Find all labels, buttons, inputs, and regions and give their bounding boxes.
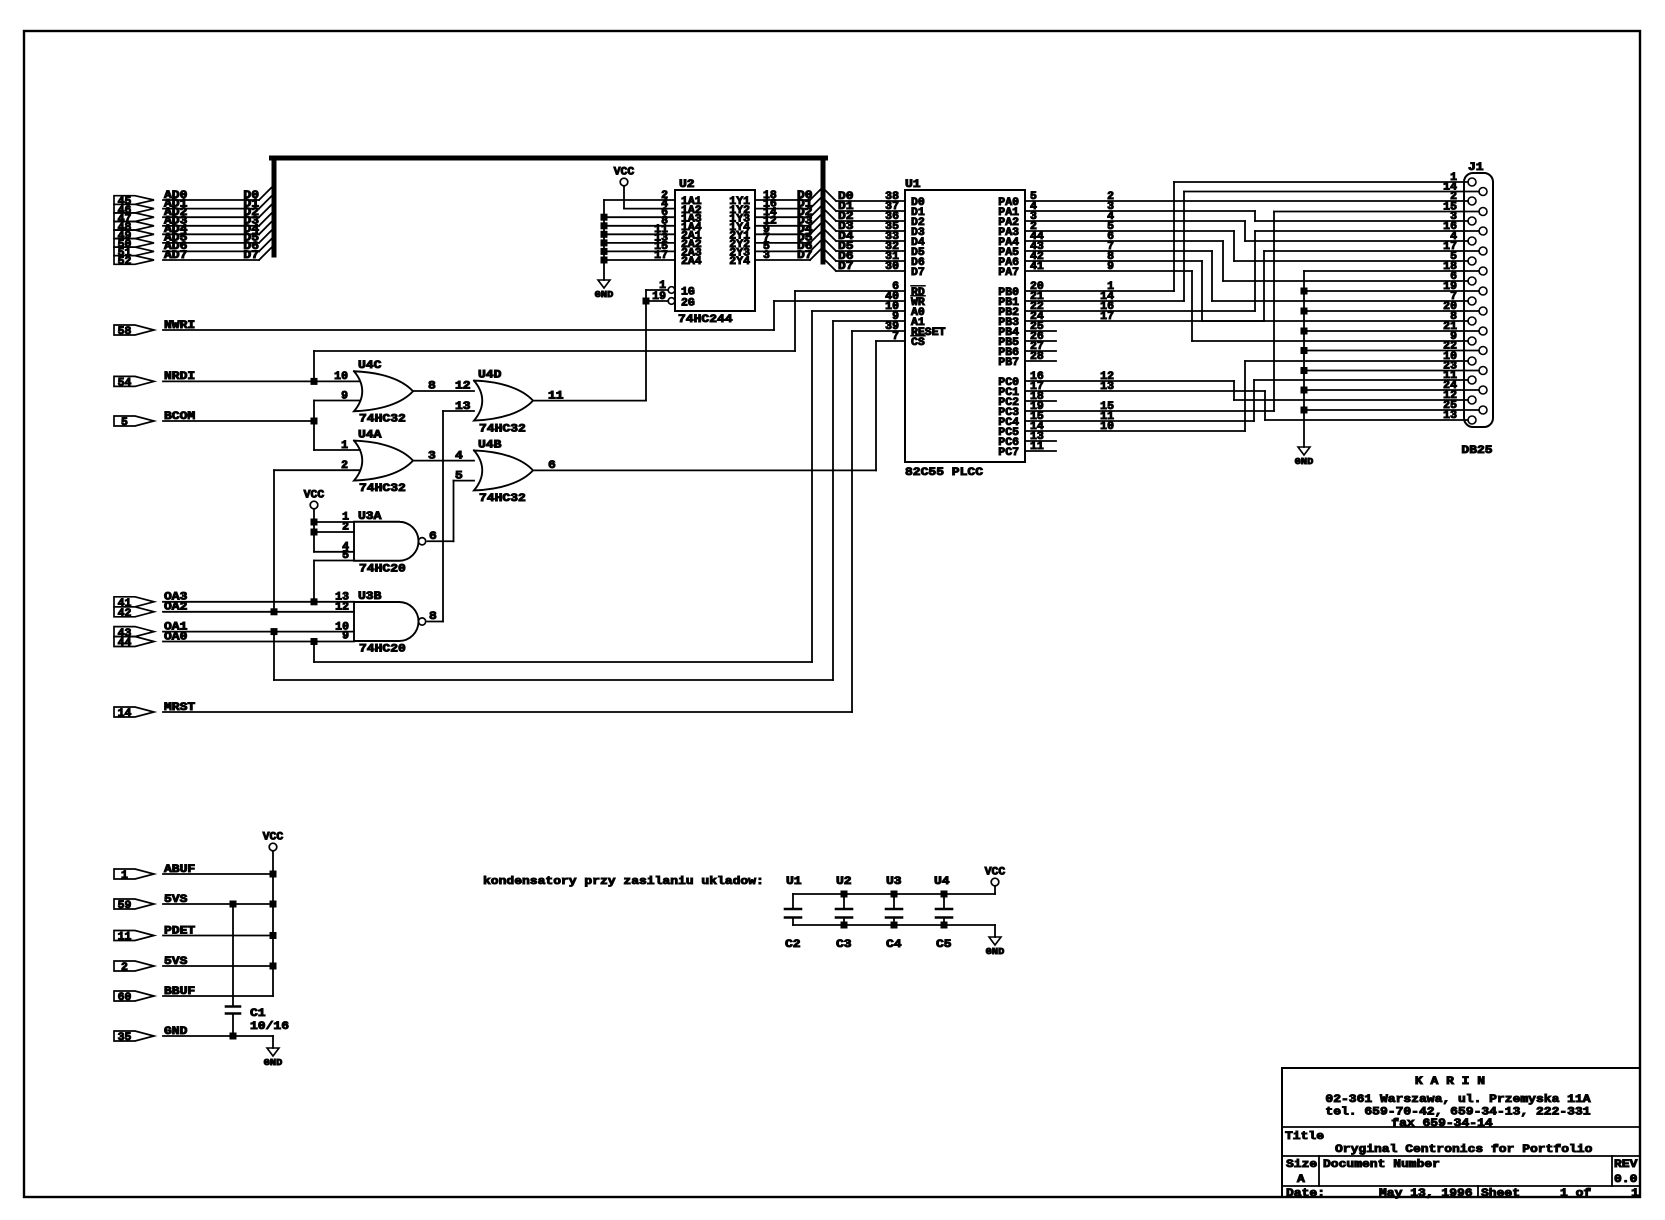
wire U2 output 2Y4 (pin 3) to bus bbox=[755, 259, 810, 261]
svg-text:U3B: U3B bbox=[358, 591, 382, 603]
wire bus to U1 D1 (pin 37) bbox=[823, 198, 836, 211]
svg-text:U4D: U4D bbox=[478, 370, 502, 382]
svg-text:VCC: VCC bbox=[263, 832, 284, 844]
ground symbol caps rail bbox=[989, 937, 1001, 945]
svg-text:74HC244: 74HC244 bbox=[678, 314, 733, 326]
junction GND trunk pin 19 bbox=[1301, 288, 1308, 295]
junction OA0 bbox=[311, 638, 318, 645]
connector J1 pin 21 hole bbox=[1479, 327, 1487, 335]
svg-text:U4B: U4B bbox=[478, 440, 502, 452]
capacitor C4 bbox=[893, 894, 895, 909]
port 45 (AD0) bbox=[114, 196, 154, 205]
connector J1 pin 25 hole bbox=[1479, 406, 1487, 414]
wire bus to U1 D4 (pin 33) bbox=[823, 228, 836, 241]
svg-text:60: 60 bbox=[118, 992, 132, 1004]
svg-text:PDET: PDET bbox=[164, 925, 195, 937]
junction BCOM bbox=[311, 418, 318, 425]
svg-text:5: 5 bbox=[121, 417, 128, 429]
svg-text:4: 4 bbox=[455, 450, 463, 462]
svg-text:J1: J1 bbox=[1468, 162, 1484, 174]
svg-text:8: 8 bbox=[428, 381, 436, 393]
svg-text:59: 59 bbox=[118, 900, 132, 912]
wire AD6 bbox=[163, 250, 259, 252]
svg-text:U3A: U3A bbox=[358, 511, 382, 523]
wire AD3 bbox=[163, 225, 259, 227]
junction U3A pin1 bbox=[311, 519, 318, 526]
svg-text:C1: C1 bbox=[250, 1008, 266, 1020]
connector J1 pin 11 hole bbox=[1468, 376, 1476, 384]
svg-text:Size: Size bbox=[1286, 1159, 1317, 1171]
svg-text:19: 19 bbox=[652, 291, 666, 303]
wire U2 output 1Y1 (pin 18) to bus bbox=[755, 199, 810, 201]
title block bbox=[1282, 1068, 1640, 1197]
wire bus to U1 D3 (pin 35) bbox=[823, 218, 836, 231]
wire stub U1 PC2 bbox=[1025, 400, 1056, 402]
wire GND tie vertical at U2 inputs bbox=[603, 200, 605, 280]
junction GND/C1 bbox=[230, 1033, 237, 1040]
svg-text:1: 1 bbox=[1631, 1188, 1639, 1200]
wire U4C output pin 8 to U4D pin 12 bbox=[413, 390, 474, 392]
wire AD5 bbox=[163, 242, 259, 244]
wire J1 pin 18 to GND trunk bbox=[1304, 270, 1479, 272]
wire stub U1 PC7 bbox=[1025, 450, 1056, 452]
ground symbol bottom-left bbox=[267, 1048, 279, 1056]
svg-text:U3: U3 bbox=[886, 876, 902, 888]
wire J1 pin 22 to GND trunk bbox=[1304, 350, 1479, 352]
port 11 (PDET) bbox=[114, 931, 154, 941]
wire U2 output 2Y3 (pin 5) to bus bbox=[755, 250, 810, 252]
svg-text:tel. 659-70-42, 659-34-13, 222: tel. 659-70-42, 659-34-13, 222-331 bbox=[1325, 1107, 1590, 1119]
port 60 (BBUF) bbox=[114, 991, 154, 1001]
svg-text:02-361 Warszawa, ul. Przemyska: 02-361 Warszawa, ul. Przemyska 11A bbox=[1325, 1094, 1590, 1106]
svg-text:3: 3 bbox=[428, 450, 436, 462]
junction 1G/2G bbox=[643, 298, 650, 305]
svg-text:GND: GND bbox=[595, 289, 614, 300]
connector J1 pin 14 hole bbox=[1479, 188, 1487, 196]
ground symbol J1 bbox=[1298, 447, 1310, 455]
svg-text:5VS: 5VS bbox=[164, 956, 188, 968]
or-gate U4D 74HC32 bbox=[474, 381, 533, 421]
wire U2 input pin 6 bbox=[604, 216, 675, 218]
svg-text:A: A bbox=[1297, 1174, 1305, 1186]
bus AD/D data bus horizontal top bbox=[272, 156, 826, 161]
connector J1 DB25 body bbox=[1464, 173, 1493, 427]
junction GND trunk pin 25 bbox=[1301, 407, 1308, 414]
wire U1 PB0 to J1 pin 1 bbox=[1025, 290, 1174, 292]
wire U2 output 1Y3 (pin 14) to bus bbox=[755, 216, 810, 218]
wire U3A pin 5 to OA3 bbox=[314, 560, 354, 562]
svg-text:OA0: OA0 bbox=[164, 631, 188, 643]
wire NRDI to U4C pin 10 and U1 RD bbox=[163, 380, 360, 382]
wire U1 PB1 to J1 pin 14 bbox=[1025, 300, 1184, 302]
nand-gate U3A 74HC20 bbox=[354, 522, 419, 561]
wire U2 pin 1 (1G) bbox=[646, 289, 668, 291]
port 2 (5VS) bbox=[114, 961, 154, 971]
connector J1 pin 8 hole bbox=[1468, 317, 1476, 325]
junction at U2 pin 6 bbox=[601, 214, 608, 221]
connector J1 pin 19 hole bbox=[1479, 287, 1487, 295]
svg-text:2: 2 bbox=[121, 962, 128, 974]
svg-text:35: 35 bbox=[118, 1032, 132, 1044]
junction at U2 pin 13 bbox=[601, 239, 608, 246]
junction C3 bottom bbox=[841, 922, 848, 929]
junction 5VS / C1 bbox=[230, 901, 237, 908]
wire U1 PC0 to J1 pin 12 bbox=[1025, 380, 1234, 382]
wire U2 output 2Y2 (pin 7) to bus bbox=[755, 242, 810, 244]
svg-text:D7: D7 bbox=[243, 250, 259, 262]
wire AD1 bbox=[163, 208, 259, 210]
wire J1 pin 25 to GND trunk bbox=[1304, 409, 1479, 411]
port 48 (AD3) bbox=[114, 222, 154, 231]
connector J1 pin 9 hole bbox=[1468, 337, 1476, 345]
svg-text:OA2: OA2 bbox=[164, 602, 188, 614]
wire AD2 bbox=[163, 216, 259, 218]
svg-text:0.0: 0.0 bbox=[1614, 1174, 1638, 1186]
or-gate U4B 74HC32 bbox=[474, 450, 533, 490]
svg-text:9: 9 bbox=[341, 391, 348, 403]
wire GND trunk at J1 bbox=[1303, 271, 1305, 447]
wire caps VCC rail bbox=[994, 886, 996, 894]
wire stub U1 PB7 bbox=[1025, 360, 1056, 362]
wire U1 PA0 to J1 pin 2 bbox=[1025, 200, 1468, 202]
port 1 (ABUF) bbox=[114, 869, 154, 879]
wire U1 PA6 to J1 pin 8 bbox=[1025, 260, 1202, 262]
junction GND trunk pin 20 bbox=[1301, 308, 1308, 315]
svg-text:GND: GND bbox=[1295, 456, 1314, 467]
connector J1 pin 7 hole bbox=[1468, 297, 1476, 305]
svg-text:2A4: 2A4 bbox=[681, 256, 702, 268]
wire U3A output pin 6 to U4B pin 5 bbox=[428, 540, 454, 542]
svg-text:74HC32: 74HC32 bbox=[359, 414, 406, 426]
svg-text:VCC: VCC bbox=[985, 867, 1006, 879]
svg-text:U4A: U4A bbox=[358, 430, 382, 442]
capacitor C5 bbox=[943, 894, 945, 909]
svg-text:11: 11 bbox=[548, 390, 564, 402]
svg-text:Sheet: Sheet bbox=[1481, 1188, 1520, 1200]
svg-text:Oryginal Centronics for Portfo: Oryginal Centronics for Portfolio bbox=[1335, 1144, 1593, 1156]
svg-text:fax 659-34-14: fax 659-34-14 bbox=[1391, 1118, 1493, 1130]
junction U3A pin2 bbox=[311, 529, 318, 536]
wire U4D output pin 11 to U2 enables bbox=[645, 301, 647, 401]
svg-text:kondensatory przy zasilaniu uk: kondensatory przy zasilaniu ukladow: bbox=[483, 876, 764, 888]
svg-text:82C55 PLCC: 82C55 PLCC bbox=[905, 467, 983, 479]
svg-text:6: 6 bbox=[429, 531, 437, 543]
wire VCC to U2 pin 4 bbox=[623, 186, 625, 209]
connector J1 pin 17 hole bbox=[1479, 247, 1487, 255]
port 51 (AD6) bbox=[114, 247, 154, 256]
junction ABUF bbox=[270, 871, 277, 878]
wire NWRI to U1 WR bbox=[163, 329, 774, 331]
svg-text:U2: U2 bbox=[679, 179, 695, 191]
junction 5VS bbox=[270, 901, 277, 908]
svg-text:AD7: AD7 bbox=[164, 250, 188, 262]
svg-text:74HC20: 74HC20 bbox=[359, 644, 406, 656]
nand-gate U3B 74HC20 bbox=[354, 602, 419, 641]
svg-text:74HC20: 74HC20 bbox=[359, 564, 406, 576]
junction GND trunk pin 24 bbox=[1301, 387, 1308, 394]
svg-text:17: 17 bbox=[654, 250, 668, 262]
svg-text:VCC: VCC bbox=[614, 167, 635, 179]
IC U1 82C55 PLCC bbox=[905, 190, 1025, 462]
junction at U2 pin 17 bbox=[601, 257, 608, 264]
svg-text:NWRI: NWRI bbox=[164, 320, 195, 332]
wire bus to U1 D0 (pin 38) bbox=[823, 188, 836, 201]
junction NRDI bbox=[311, 378, 318, 385]
svg-text:10: 10 bbox=[334, 371, 348, 383]
svg-text:8: 8 bbox=[429, 611, 437, 623]
wire J1 pin 23 to GND trunk bbox=[1304, 370, 1479, 372]
wire bus to U1 D5 (pin 32) bbox=[823, 238, 836, 251]
wire U4B output pin 6 to U1 CS bbox=[534, 469, 876, 471]
svg-text:U1: U1 bbox=[786, 876, 802, 888]
wire U1 PC5 to J1 pin 10 bbox=[1025, 430, 1245, 432]
wire U2 input pin 8 bbox=[604, 225, 675, 227]
junction GND trunk pin 21 bbox=[1301, 328, 1308, 335]
svg-text:52: 52 bbox=[118, 256, 132, 268]
svg-text:Title: Title bbox=[1285, 1131, 1324, 1143]
wire U2 pin 19 (2G) bbox=[646, 300, 668, 302]
svg-text:PC7: PC7 bbox=[998, 447, 1019, 459]
svg-text:BBUF: BBUF bbox=[164, 986, 195, 998]
capacitor C3 bbox=[843, 894, 845, 909]
wire AD0 bbox=[163, 199, 259, 201]
junction 5VS bbox=[270, 963, 277, 970]
connector J1 pin 12 hole bbox=[1468, 396, 1476, 404]
connector J1 pin 22 hole bbox=[1479, 347, 1487, 355]
wire ABUF bbox=[163, 873, 273, 875]
svg-text:U2: U2 bbox=[836, 876, 852, 888]
IC U2 74HC244 buffer bbox=[675, 190, 755, 311]
connector J1 pin 20 hole bbox=[1479, 307, 1487, 315]
junction GND trunk pin 23 bbox=[1301, 367, 1308, 374]
junction PDET bbox=[270, 932, 277, 939]
port 58 (NWRI) bbox=[114, 325, 154, 335]
svg-text:U1: U1 bbox=[905, 179, 921, 191]
wire U1 PA4 to J1 pin 6 bbox=[1025, 240, 1223, 242]
svg-text:ABUF: ABUF bbox=[164, 864, 195, 876]
connector J1 pin 5 hole bbox=[1468, 257, 1476, 265]
wire OA0 to U3B pin 9 bbox=[163, 641, 354, 643]
svg-text:6: 6 bbox=[548, 460, 556, 472]
svg-text:14: 14 bbox=[118, 708, 132, 720]
svg-text:GND: GND bbox=[264, 1057, 283, 1068]
wire J1 pin 24 to GND trunk bbox=[1304, 389, 1479, 391]
wire U1 PA5 to J1 pin 7 bbox=[1025, 250, 1212, 252]
capacitor C1 10/16 bbox=[226, 1005, 240, 1008]
junction OA1 bbox=[271, 628, 278, 635]
overbar WR bbox=[911, 295, 925, 297]
svg-text:K A R I N: K A R I N bbox=[1415, 1076, 1485, 1088]
junction C3 top bbox=[841, 891, 848, 898]
connector J1 pin 10 hole bbox=[1468, 357, 1476, 365]
svg-text:Document Number: Document Number bbox=[1323, 1159, 1440, 1171]
svg-text:REV: REV bbox=[1614, 1159, 1638, 1171]
svg-text:2: 2 bbox=[342, 522, 349, 534]
connector J1 pin 15 hole bbox=[1479, 208, 1487, 216]
wire bus to U1 D7 (pin 30) bbox=[823, 258, 836, 271]
wire 5VS bbox=[163, 965, 273, 967]
wire U1 PA3 to J1 pin 5 bbox=[1025, 230, 1234, 232]
wire U2 input pin 13 bbox=[604, 242, 675, 244]
wire BCOM to U4C pin 9 and U4A pin 1 bbox=[313, 401, 315, 451]
wire U1 PA1 to J1 pin 3 bbox=[1025, 210, 1255, 212]
wire AD7 bbox=[163, 259, 259, 261]
svg-text:30: 30 bbox=[885, 261, 899, 273]
ground symbol below U2 inputs bbox=[598, 280, 610, 288]
svg-text:74HC32: 74HC32 bbox=[479, 493, 526, 505]
port 59 (5VS) bbox=[114, 899, 154, 909]
wire OA3 to U3B pin 13 bbox=[163, 601, 354, 603]
junction OA3 / U3A pin5 bbox=[311, 598, 318, 605]
junction at U2 pin 15 bbox=[601, 248, 608, 255]
U2 enable bubbles 1G 2G bbox=[668, 287, 675, 294]
port 50 (AD5) bbox=[114, 239, 154, 248]
svg-text:5VS: 5VS bbox=[164, 894, 188, 906]
svg-text:C4: C4 bbox=[886, 939, 902, 951]
junction C5 top bbox=[941, 891, 948, 898]
wire stub U1 PB6 bbox=[1025, 350, 1056, 352]
wire J1 pin 19 to GND trunk bbox=[1304, 290, 1479, 292]
wire NRDI branch to RD bbox=[313, 351, 315, 381]
wire 5VS bbox=[163, 903, 273, 905]
port 5 (BCOM) bbox=[114, 416, 154, 426]
wire caps GND rail bbox=[793, 924, 995, 926]
wire bus to U1 D2 (pin 36) bbox=[823, 208, 836, 221]
wire C1 bottom bbox=[232, 1014, 234, 1037]
svg-text:13: 13 bbox=[1443, 410, 1457, 422]
svg-text:May 13, 1996: May 13, 1996 bbox=[1379, 1188, 1473, 1200]
svg-text:CS: CS bbox=[911, 337, 925, 349]
wire stub U1 PC6 bbox=[1025, 440, 1056, 442]
wire U1 PB2 to J1 pin 16 bbox=[1025, 310, 1255, 312]
wire OA1 branch to U1 A1 bbox=[273, 632, 275, 680]
svg-text:VCC: VCC bbox=[304, 490, 325, 502]
or-gate U4C 74HC32 bbox=[354, 371, 413, 411]
svg-text:5: 5 bbox=[342, 550, 349, 562]
svg-text:PA7: PA7 bbox=[998, 267, 1019, 279]
port 35 (GND) bbox=[114, 1031, 154, 1041]
port 42 (OA2) bbox=[114, 607, 154, 617]
wire stub U1 PB4 bbox=[1025, 330, 1056, 332]
junction at U2 pin 11 bbox=[601, 231, 608, 238]
connector J1 pin 6 hole bbox=[1468, 277, 1476, 285]
svg-text:D7: D7 bbox=[911, 267, 925, 279]
svg-text:D7: D7 bbox=[797, 250, 813, 262]
connector J1 pin 16 hole bbox=[1479, 227, 1487, 235]
overbar RD bbox=[911, 285, 925, 287]
wire U4D input pin 13 from U3B bbox=[443, 410, 474, 412]
port 43 (OA1) bbox=[114, 627, 154, 637]
wire U1 PC1 to J1 pin 13 bbox=[1025, 390, 1265, 392]
svg-text:C2: C2 bbox=[785, 939, 801, 951]
svg-text:58: 58 bbox=[118, 326, 132, 338]
wire U2 input pin 15 bbox=[604, 250, 675, 252]
connector J1 pin 18 hole bbox=[1479, 267, 1487, 275]
or-gate U4A 74HC32 bbox=[354, 441, 413, 481]
svg-text:44: 44 bbox=[118, 638, 132, 650]
wire to GND symbol bbox=[272, 1036, 274, 1048]
port 52 (AD7) bbox=[114, 256, 154, 265]
svg-text:Date:: Date: bbox=[1286, 1188, 1325, 1200]
svg-text:D7: D7 bbox=[838, 261, 854, 273]
wire stub U1 PB5 bbox=[1025, 340, 1056, 342]
svg-text:74HC32: 74HC32 bbox=[479, 424, 526, 436]
svg-text:C3: C3 bbox=[836, 939, 852, 951]
junction GND trunk pin 22 bbox=[1301, 347, 1308, 354]
wire bus to U1 D6 (pin 31) bbox=[823, 248, 836, 261]
svg-text:12: 12 bbox=[455, 381, 471, 393]
svg-text:2G: 2G bbox=[681, 298, 695, 310]
bus AD/D data bus vertical right bbox=[821, 161, 826, 263]
wire BBUF bbox=[163, 995, 273, 997]
wire J1 pin 21 to GND trunk bbox=[1304, 330, 1479, 332]
svg-text:10/16: 10/16 bbox=[250, 1021, 289, 1033]
wire OA2 to U3B pin 12 bbox=[163, 611, 354, 613]
wire U4A output pin 3 to U4B pin 4 bbox=[413, 460, 474, 462]
svg-text:74HC32: 74HC32 bbox=[359, 483, 406, 495]
svg-text:11: 11 bbox=[118, 932, 132, 944]
junction C5 bottom bbox=[941, 922, 948, 929]
connector J1 pin 4 hole bbox=[1468, 237, 1476, 245]
port 14 (MRST) bbox=[114, 707, 154, 717]
wire U3B output pin 8 to U4D pin 13 bbox=[428, 621, 444, 623]
svg-text:54: 54 bbox=[118, 378, 132, 390]
port 54 (NRDI) bbox=[114, 376, 154, 386]
port 41 (OA3) bbox=[114, 597, 154, 607]
wire GND net bbox=[163, 1035, 273, 1037]
connector J1 pin 23 hole bbox=[1479, 367, 1487, 375]
wire U2 output 1Y4 (pin 12) to bus bbox=[755, 225, 810, 227]
wire U1 PC4 to J1 pin 11 bbox=[1025, 420, 1254, 422]
wire U3A pin 2 bbox=[314, 531, 354, 533]
port 49 (AD4) bbox=[114, 230, 154, 239]
svg-text:GND: GND bbox=[986, 946, 1005, 957]
wire U1 PB3 to J1 pin 17 bbox=[1025, 320, 1264, 322]
svg-text:1: 1 bbox=[341, 440, 348, 452]
svg-text:C5: C5 bbox=[936, 939, 952, 951]
port 44 (OA0) bbox=[114, 637, 154, 647]
wire U3A pin 1 bbox=[314, 521, 354, 523]
junction at U2 pin 8 bbox=[601, 222, 608, 229]
wire U2 input pin 11 bbox=[604, 233, 675, 235]
wire AD4 bbox=[163, 233, 259, 235]
wire U2 output 1Y2 (pin 16) to bus bbox=[755, 208, 810, 210]
wire U2 input pin 2 bbox=[604, 199, 675, 201]
wire C1 top bbox=[232, 904, 234, 1006]
wire BCOM bbox=[163, 420, 314, 422]
wire OA0 branch to U1 A0 bbox=[313, 642, 315, 663]
svg-text:U4C: U4C bbox=[358, 360, 382, 372]
svg-text:1 of: 1 of bbox=[1560, 1188, 1591, 1200]
junction OA2 bbox=[271, 608, 278, 615]
svg-text:3: 3 bbox=[763, 250, 770, 262]
connector J1 pin 24 hole bbox=[1479, 386, 1487, 394]
wire J1 pin 20 to GND trunk bbox=[1304, 310, 1479, 312]
svg-text:NRDI: NRDI bbox=[164, 371, 195, 383]
svg-text:2: 2 bbox=[661, 190, 668, 202]
port 46 (AD1) bbox=[114, 204, 154, 213]
svg-text:1: 1 bbox=[121, 870, 128, 882]
connector J1 pin 3 hole bbox=[1468, 217, 1476, 225]
connector J1 pin 1 hole bbox=[1468, 178, 1476, 186]
wire VCC to U3A pins 1 2 4 bbox=[313, 509, 315, 552]
bus AD/D data bus vertical left bbox=[272, 161, 277, 256]
wire MRST to U1 RESET bbox=[163, 711, 852, 713]
svg-text:PB7: PB7 bbox=[998, 357, 1019, 369]
connector J1 pin 13 hole bbox=[1468, 416, 1476, 424]
wire OA1 to U3B pin 10 bbox=[163, 631, 354, 633]
junction C4 top bbox=[891, 891, 898, 898]
